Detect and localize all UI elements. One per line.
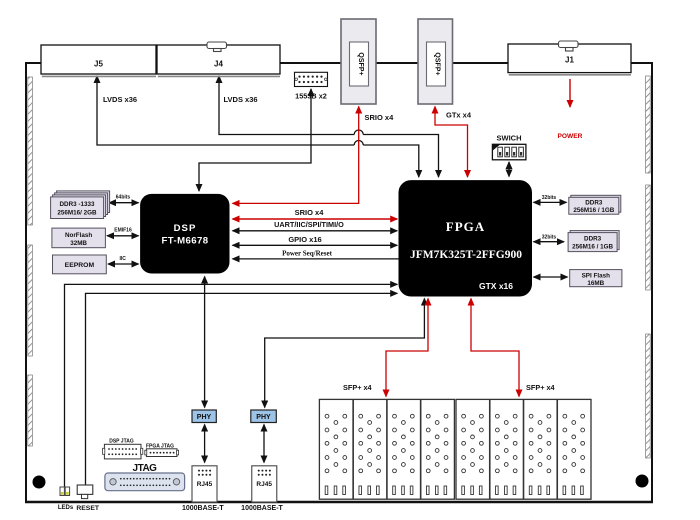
svg-text:Power Seq/Reset: Power Seq/Reset <box>282 250 332 258</box>
svg-text:EMIF16: EMIF16 <box>114 228 132 234</box>
svg-text:64bits: 64bits <box>116 195 131 201</box>
svg-text:IIC: IIC <box>120 256 127 262</box>
svg-text:GTX x16: GTX x16 <box>479 281 513 291</box>
svg-text:SFP+ x4: SFP+ x4 <box>526 383 556 392</box>
svg-text:DDR3 -1333: DDR3 -1333 <box>60 201 95 208</box>
svg-text:GPIO x16: GPIO x16 <box>288 235 321 244</box>
svg-text:FT-M6678: FT-M6678 <box>162 236 209 247</box>
svg-text:SRIO x4: SRIO x4 <box>365 113 395 122</box>
svg-text:32bits: 32bits <box>542 235 557 241</box>
svg-text:POWER: POWER <box>558 133 583 140</box>
svg-text:EEPROM: EEPROM <box>65 262 95 269</box>
svg-text:DDR3: DDR3 <box>584 236 602 243</box>
svg-text:QSFP+: QSFP+ <box>434 52 441 75</box>
svg-text:RESET: RESET <box>76 505 100 512</box>
svg-text:LEDs: LEDs <box>58 505 74 511</box>
svg-text:1553B x2: 1553B x2 <box>295 92 327 101</box>
svg-text:RJ45: RJ45 <box>197 481 213 488</box>
svg-text:FPGA: FPGA <box>446 219 485 234</box>
svg-text:PHY: PHY <box>197 414 212 421</box>
svg-text:DSP: DSP <box>174 223 197 234</box>
svg-text:JTAG: JTAG <box>133 463 158 474</box>
svg-text:LVDS x36: LVDS x36 <box>103 95 137 104</box>
svg-text:256M16 / 1GB: 256M16 / 1GB <box>572 244 613 251</box>
svg-text:SFP+ x4: SFP+ x4 <box>343 383 373 392</box>
svg-text:32bits: 32bits <box>542 195 557 201</box>
svg-text:JFM7K325T-2FFG900: JFM7K325T-2FFG900 <box>410 249 522 261</box>
svg-text:LVDS x36: LVDS x36 <box>224 95 258 104</box>
svg-text:DDR3: DDR3 <box>585 200 603 207</box>
svg-text:1000BASE-T: 1000BASE-T <box>241 505 283 512</box>
svg-text:RJ45: RJ45 <box>256 481 272 488</box>
svg-text:SPI Flash: SPI Flash <box>582 273 610 280</box>
svg-text:PHY: PHY <box>256 414 271 421</box>
svg-text:16MB: 16MB <box>587 280 604 287</box>
svg-text:J1: J1 <box>565 56 574 65</box>
svg-text:256M16 / 1GB: 256M16 / 1GB <box>573 207 614 214</box>
svg-text:DSP JTAG: DSP JTAG <box>109 439 134 445</box>
svg-text:1000BASE-T: 1000BASE-T <box>182 505 224 512</box>
svg-text:J4: J4 <box>214 60 223 69</box>
svg-text:GTx x4: GTx x4 <box>446 111 472 120</box>
svg-text:NorFlash: NorFlash <box>65 232 92 239</box>
svg-text:QSFP+: QSFP+ <box>357 52 364 75</box>
svg-text:256M16/ 2GB: 256M16/ 2GB <box>57 209 97 216</box>
svg-text:32MB: 32MB <box>70 240 87 247</box>
svg-text:SWICH: SWICH <box>497 134 522 143</box>
svg-text:UART/IIC/SPI/TIMI/O: UART/IIC/SPI/TIMI/O <box>274 220 344 229</box>
svg-text:SRIO x4: SRIO x4 <box>295 208 325 217</box>
svg-text:J5: J5 <box>94 60 103 69</box>
